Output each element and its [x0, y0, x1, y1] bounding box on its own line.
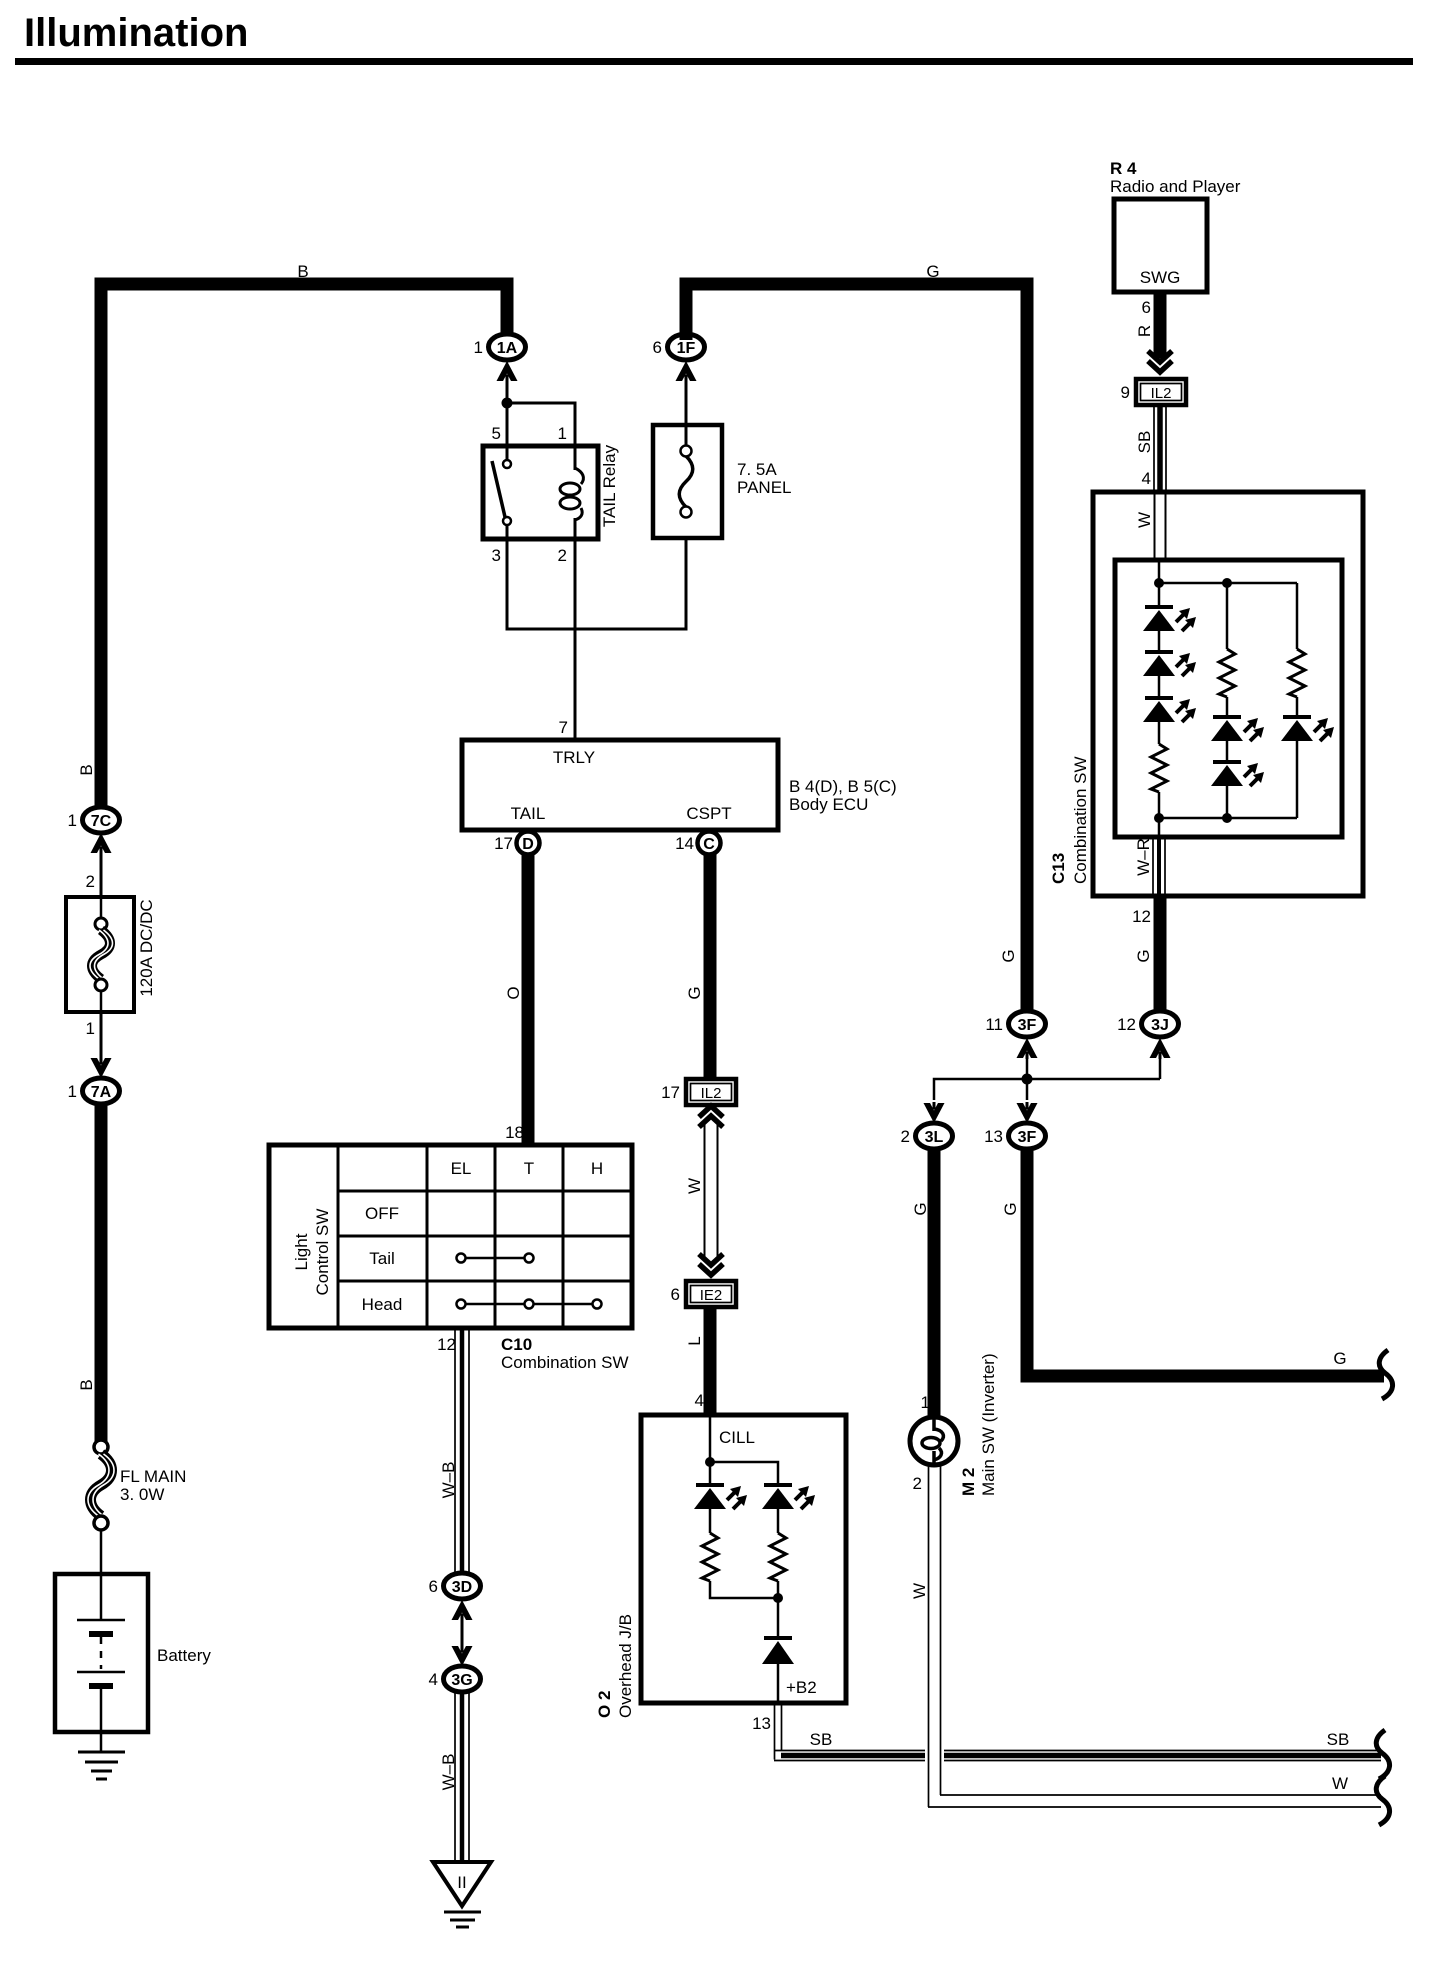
- svg-text:2: 2: [86, 872, 95, 891]
- svg-text:1: 1: [86, 1019, 95, 1038]
- fuse 120A DC/DC: [66, 897, 156, 1012]
- connector 7C: [68, 807, 120, 833]
- svg-text:B: B: [297, 262, 308, 281]
- connector IL2 pin 17: [661, 1079, 736, 1105]
- wire W-B from 3G to ground: [439, 1692, 469, 1862]
- svg-text:Control SW: Control SW: [313, 1209, 332, 1296]
- svg-text:W–R: W–R: [1134, 838, 1153, 876]
- resistor right branch: [1289, 583, 1305, 717]
- svg-text:18: 18: [505, 1123, 524, 1142]
- svg-text:Combination SW: Combination SW: [1071, 756, 1090, 884]
- svg-text:1: 1: [68, 811, 77, 830]
- wire and arrow down into 7A: [86, 1012, 112, 1078]
- C13 bottom bus: [1154, 813, 1297, 837]
- arrow double chevron down into IL2 pin 9: [1148, 351, 1172, 372]
- svg-text:Head: Head: [362, 1295, 403, 1314]
- LED chain left branch: [1143, 583, 1196, 818]
- connector 3F pin 13: [984, 1123, 1045, 1149]
- svg-text:11: 11: [985, 1015, 1003, 1034]
- connector 7A: [68, 1078, 120, 1104]
- svg-text:7A: 7A: [91, 1084, 112, 1101]
- svg-text:IL2: IL2: [701, 1085, 722, 1102]
- svg-text:1: 1: [921, 1393, 930, 1412]
- svg-text:C10: C10: [501, 1335, 532, 1354]
- svg-text:1F: 1F: [677, 340, 696, 357]
- svg-text:PANEL: PANEL: [737, 478, 792, 497]
- svg-text:SB: SB: [1135, 431, 1154, 454]
- title Illumination: [15, 11, 1413, 65]
- overhead J/B box O2: [595, 1415, 846, 1718]
- connector 3D: [429, 1573, 481, 1599]
- node junction above relay: [502, 398, 513, 409]
- svg-text:120A DC/DC: 120A DC/DC: [137, 899, 156, 996]
- svg-text:C13: C13: [1049, 853, 1068, 884]
- arrow down into 3F pin 13: [1017, 1102, 1038, 1123]
- svg-text:Body ECU: Body ECU: [789, 795, 868, 814]
- switch contacts Tail row: [457, 1254, 534, 1263]
- pin C of body ECU: [675, 832, 720, 855]
- arrow up into 1F: [676, 361, 697, 382]
- svg-text:7C: 7C: [91, 813, 112, 830]
- svg-text:M 2: M 2: [959, 1468, 978, 1496]
- connector 3L pin 2: [901, 1123, 953, 1149]
- svg-text:R: R: [1135, 325, 1154, 337]
- svg-text:3G: 3G: [451, 1672, 472, 1689]
- wire O from TAIL pin to combination switch: [504, 854, 528, 1145]
- wire W-B from pin 12 to 3D: [437, 1328, 469, 1573]
- LED 1 in CILL: [694, 1485, 747, 1509]
- wire L from IE2 to overhead J/B: [685, 1307, 710, 1415]
- connector 3G: [429, 1666, 481, 1692]
- svg-text:G: G: [926, 262, 939, 281]
- svg-text:SWG: SWG: [1140, 268, 1181, 287]
- svg-text:Combination SW: Combination SW: [501, 1353, 629, 1372]
- wire SB from IL2 pin 9 to C13: [1135, 405, 1166, 492]
- wire inside J/B to LED branches: [705, 1415, 778, 1485]
- wire B top horizontal and vertical legs: [77, 262, 507, 810]
- connector 3J pin 12: [1117, 1011, 1178, 1037]
- svg-text:SB: SB: [810, 1730, 833, 1749]
- svg-text:3L: 3L: [925, 1129, 944, 1146]
- svg-text:1A: 1A: [497, 340, 518, 357]
- svg-text:1: 1: [474, 338, 483, 357]
- svg-text:2: 2: [901, 1127, 910, 1146]
- fusible link FL MAIN 3.0W: [88, 1440, 186, 1530]
- battery: [55, 1574, 211, 1752]
- break symbol W right: [1376, 1776, 1389, 1825]
- wire relay pin2 to body ECU pin 7: [559, 539, 575, 740]
- resistor below LED 2: [770, 1509, 786, 1603]
- svg-text:W: W: [1332, 1774, 1348, 1793]
- wire branch to relay coil pin 1: [492, 403, 575, 446]
- svg-text:13: 13: [984, 1127, 1003, 1146]
- arrow double chevron down into IE2: [699, 1254, 723, 1275]
- body ECU box B4(D) B5(C): [462, 740, 897, 830]
- svg-text:1: 1: [68, 1082, 77, 1101]
- arrow up into 7C: [86, 833, 112, 897]
- svg-text:R 4: R 4: [1110, 159, 1137, 178]
- fuse 7.5A PANEL: [653, 380, 792, 538]
- arrow up into 3F pin 11: [1017, 1038, 1038, 1079]
- svg-text:W: W: [1135, 512, 1154, 528]
- break symbol SB right: [1376, 1730, 1389, 1779]
- arrow down into 3L: [924, 1102, 945, 1123]
- relay TAIL Relay: [483, 444, 619, 565]
- svg-text:17: 17: [661, 1083, 680, 1102]
- svg-text:EL: EL: [451, 1159, 472, 1178]
- connector 1A: [474, 334, 526, 360]
- svg-text:C: C: [703, 836, 715, 853]
- svg-text:4: 4: [429, 1670, 438, 1689]
- svg-text:14: 14: [675, 834, 694, 853]
- svg-text:CILL: CILL: [719, 1428, 755, 1447]
- svg-text:3F: 3F: [1018, 1129, 1037, 1146]
- svg-text:6: 6: [429, 1577, 438, 1596]
- svg-text:5: 5: [492, 424, 501, 443]
- arrow up into 3J: [1150, 1038, 1171, 1079]
- LED 2 in CILL: [762, 1485, 815, 1509]
- svg-text:G: G: [1134, 949, 1153, 962]
- svg-text:G: G: [1001, 1202, 1020, 1215]
- svg-text:TAIL: TAIL: [511, 804, 546, 823]
- svg-text:L: L: [685, 1336, 704, 1345]
- svg-text:12: 12: [1117, 1015, 1136, 1034]
- C13 top bus: [1154, 560, 1297, 588]
- svg-text:2: 2: [558, 546, 567, 565]
- svg-text:3J: 3J: [1151, 1017, 1169, 1034]
- resistor middle branch: [1219, 583, 1235, 717]
- svg-text:Illumination: Illumination: [24, 11, 248, 55]
- resistor below LED 1: [702, 1509, 778, 1598]
- arrow up into 3D and wire: [452, 1600, 473, 1666]
- wire G from C13 down to 3J: [1134, 896, 1160, 1011]
- svg-text:+B2: +B2: [786, 1678, 817, 1697]
- svg-text:IE2: IE2: [700, 1287, 723, 1304]
- wire G from 3L to main SW: [911, 1149, 934, 1417]
- LED chain middle branch: [1211, 717, 1264, 818]
- svg-text:W–B: W–B: [439, 1462, 458, 1499]
- svg-text:W: W: [910, 1583, 929, 1599]
- arrow up into 1A and wire to junction: [497, 361, 518, 446]
- svg-text:G: G: [685, 986, 704, 999]
- svg-text:Tail: Tail: [369, 1249, 395, 1268]
- svg-text:G: G: [999, 949, 1018, 962]
- svg-text:6: 6: [1142, 298, 1151, 317]
- connector IL2 pin 9: [1121, 379, 1186, 405]
- switch contacts Head row: [457, 1300, 602, 1309]
- wire relay pin3 to panel fuse: [507, 517, 686, 629]
- pin D of body ECU: [494, 832, 539, 855]
- svg-text:1: 1: [558, 424, 567, 443]
- svg-text:17: 17: [494, 834, 513, 853]
- svg-text:CSPT: CSPT: [686, 804, 731, 823]
- svg-text:7. 5A: 7. 5A: [737, 460, 777, 479]
- svg-text:W–B: W–B: [439, 1754, 458, 1791]
- svg-text:T: T: [524, 1159, 534, 1178]
- svg-text:O 2: O 2: [595, 1691, 614, 1718]
- wire G top horizontal: [686, 262, 1027, 1011]
- svg-text:Battery: Battery: [157, 1646, 211, 1665]
- svg-text:IL2: IL2: [1151, 385, 1172, 402]
- svg-text:Main SW (Inverter): Main SW (Inverter): [979, 1353, 998, 1496]
- wire G from CSPT pin to IL2: [685, 854, 710, 1079]
- svg-text:6: 6: [671, 1285, 680, 1304]
- svg-text:3F: 3F: [1018, 1017, 1037, 1034]
- svg-text:12: 12: [437, 1335, 456, 1354]
- wire W between IL2 and IE2: [685, 1122, 718, 1262]
- svg-text:OFF: OFF: [365, 1204, 399, 1223]
- ground II: [433, 1862, 491, 1927]
- radio and player R4: [1110, 159, 1241, 292]
- wire to battery: [100, 1530, 103, 1574]
- svg-text:2: 2: [913, 1474, 922, 1493]
- svg-text:12: 12: [1132, 907, 1151, 926]
- ground below battery: [78, 1752, 125, 1779]
- wire G from 3F pin13 to right edge: [1001, 1149, 1384, 1376]
- light control switch C10 table: [269, 1145, 632, 1328]
- svg-text:O: O: [504, 986, 523, 999]
- LED right branch: [1281, 717, 1334, 818]
- svg-text:TAIL Relay: TAIL Relay: [600, 444, 619, 527]
- svg-text:H: H: [591, 1159, 603, 1178]
- combination SW C13 outer box: [1049, 492, 1363, 896]
- svg-text:G: G: [1333, 1349, 1346, 1368]
- svg-text:FL MAIN: FL MAIN: [120, 1467, 186, 1486]
- svg-text:B: B: [77, 764, 96, 775]
- svg-text:D: D: [522, 836, 534, 853]
- label C10 Combination SW: [501, 1335, 629, 1372]
- svg-text:13: 13: [752, 1714, 771, 1733]
- svg-text:3D: 3D: [452, 1579, 472, 1596]
- wire R from SWG pin 6: [1135, 292, 1160, 358]
- svg-text:9: 9: [1121, 383, 1130, 402]
- wire W-R inside C13: [1132, 837, 1165, 926]
- svg-text:6: 6: [653, 338, 662, 357]
- diode in CILL: [762, 1598, 817, 1703]
- svg-text:W: W: [685, 1178, 704, 1194]
- svg-text:TRLY: TRLY: [553, 748, 595, 767]
- break symbol G right: [1379, 1350, 1392, 1399]
- svg-text:Light: Light: [292, 1233, 311, 1270]
- wire W inside C13: [1135, 492, 1166, 560]
- svg-text:SB: SB: [1327, 1730, 1350, 1749]
- wire SB from pin 13 to right edge: [752, 1703, 1381, 1761]
- main SW inverter M2: [910, 1353, 998, 1496]
- svg-text:4: 4: [695, 1391, 704, 1410]
- connector IE2 pin 6: [671, 1281, 736, 1307]
- svg-text:7: 7: [559, 718, 568, 737]
- svg-text:B: B: [77, 1379, 96, 1390]
- svg-text:3: 3: [492, 546, 501, 565]
- connector 1F: [653, 334, 705, 360]
- wire B lower left: [77, 1104, 101, 1442]
- harness link wire between connectors: [934, 1074, 1160, 1101]
- wire W from main SW to right edge: [910, 1465, 1381, 1807]
- connector 3F pin 11: [985, 1011, 1045, 1037]
- svg-text:4: 4: [1142, 469, 1151, 488]
- arrow double chevron up into IL2: [699, 1106, 723, 1127]
- svg-text:G: G: [911, 1202, 930, 1215]
- svg-text:3. 0W: 3. 0W: [120, 1485, 164, 1504]
- C13 inner box: [1115, 560, 1342, 837]
- svg-text:B 4(D), B 5(C): B 4(D), B 5(C): [789, 777, 897, 796]
- svg-text:Radio and Player: Radio and Player: [1110, 177, 1241, 196]
- svg-text:II: II: [457, 1873, 466, 1892]
- svg-text:Overhead J/B: Overhead J/B: [616, 1614, 635, 1718]
